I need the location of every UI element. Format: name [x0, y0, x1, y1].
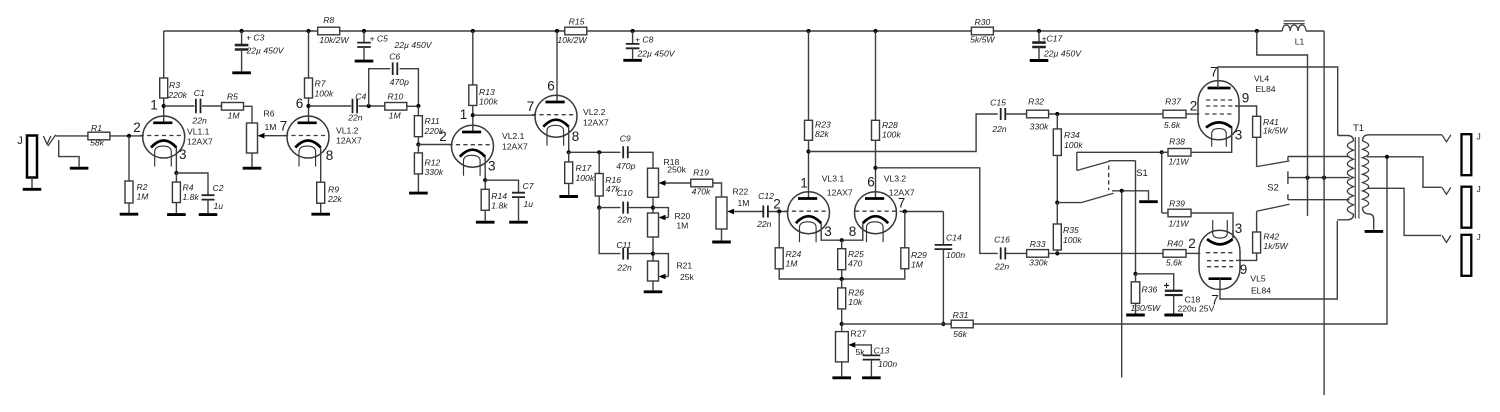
- node R35 bottom: [1055, 251, 1059, 255]
- wire B+ rail: [164, 30, 318, 32]
- wire R18 wiper-R19: [666, 182, 691, 184]
- wire S1 lower contact: [1112, 191, 1149, 201]
- svg-text:1M: 1M: [389, 110, 402, 120]
- svg-text:22n: 22n: [994, 262, 1010, 272]
- node pin6 VL1.2: [306, 104, 310, 108]
- wire R6 wiper-grid VL1.2: [264, 135, 287, 137]
- svg-text:R3: R3: [169, 80, 180, 90]
- svg-text:R5: R5: [227, 92, 238, 102]
- node R38 left: [1160, 150, 1164, 154]
- wire cathode VL2.1: [484, 157, 486, 181]
- op-amp VL3.1 triode: [788, 192, 830, 234]
- wire secondary tap1: [1367, 157, 1442, 188]
- wire R11-grid: [417, 137, 419, 145]
- resistor R17: [568, 152, 570, 162]
- svg-text:C9: C9: [620, 134, 631, 144]
- wire pin8-C9: [569, 151, 621, 153]
- svg-text:C15: C15: [990, 98, 1006, 108]
- wire C4-R10: [359, 105, 385, 107]
- resistor R9: [317, 182, 325, 203]
- wire L1 output down: [1323, 31, 1325, 395]
- jack J out2: [1462, 187, 1472, 228]
- wire jack-ground: [31, 178, 33, 189]
- switch S2 ct throw stub upper: [1287, 171, 1289, 177]
- resistor R42: [1253, 232, 1261, 253]
- wire S1 upper throw line: [1077, 151, 1162, 153]
- svg-text:R4: R4: [183, 183, 194, 193]
- wire C12-grid VL3.1: [768, 211, 787, 213]
- wire rail-plate VL2.2: [556, 31, 558, 102]
- winding T1 primary: [1347, 141, 1353, 214]
- svg-text:C6: C6: [389, 52, 400, 62]
- svg-text:R19: R19: [693, 167, 709, 177]
- svg-text:VL2.2: VL2.2: [583, 107, 606, 117]
- node rail-R7: [306, 29, 310, 33]
- svg-text:22n: 22n: [347, 113, 363, 123]
- capacitor C16: [1001, 247, 1006, 259]
- wire R21 wiper bracket: [653, 254, 668, 277]
- svg-text:S2: S2: [1267, 182, 1279, 193]
- svg-text:R6: R6: [264, 109, 275, 119]
- svg-text:R27: R27: [851, 329, 867, 339]
- wire rail-R7: [308, 31, 310, 78]
- svg-text:R39: R39: [1169, 199, 1185, 209]
- resistor R40: [1163, 250, 1186, 258]
- wire rail-R23: [808, 31, 810, 120]
- svg-text:2: 2: [773, 196, 781, 211]
- node tail: [840, 277, 844, 281]
- capacitor C6 bypass loop: [369, 69, 391, 106]
- wire R23-plate VL3.1: [808, 140, 810, 198]
- resistor R3: [160, 78, 168, 98]
- wire secondary tap2: [1367, 188, 1441, 235]
- svg-text:100k: 100k: [882, 130, 901, 140]
- resistor R4: [175, 173, 177, 182]
- svg-text:22µ 450V: 22µ 450V: [637, 48, 676, 58]
- svg-text:R21: R21: [676, 261, 692, 271]
- svg-text:250k: 250k: [667, 164, 686, 174]
- svg-text:R8: R8: [323, 15, 334, 25]
- wire cathode VL3.2: [842, 223, 863, 240]
- svg-text:R25: R25: [848, 249, 864, 259]
- svg-text:10k/2W: 10k/2W: [557, 35, 587, 45]
- op-amp VL2.1 triode: [452, 125, 494, 167]
- wire R41-S2 pivot: [1256, 137, 1258, 166]
- svg-text:VL2.1: VL2.1: [502, 131, 525, 141]
- svg-text:82k: 82k: [815, 129, 830, 139]
- resistor R2: [128, 136, 130, 181]
- ground C17: [1030, 59, 1049, 62]
- resistor R13: [469, 85, 477, 106]
- resistor R36: [1135, 274, 1137, 282]
- svg-text:R32: R32: [1028, 97, 1044, 107]
- wire C16-R33: [1006, 252, 1027, 254]
- svg-text:8: 8: [849, 224, 857, 239]
- svg-text:470p: 470p: [616, 161, 635, 171]
- svg-text:100k: 100k: [479, 97, 498, 107]
- svg-text:12AX7: 12AX7: [583, 117, 609, 127]
- svg-text:R29: R29: [911, 250, 927, 260]
- svg-text:R37: R37: [1165, 97, 1182, 107]
- svg-text:R26: R26: [848, 288, 864, 298]
- resistor R30: [971, 27, 993, 35]
- svg-text:6: 6: [867, 174, 875, 189]
- svg-text:1M: 1M: [786, 259, 799, 269]
- svg-text:C16: C16: [994, 235, 1010, 245]
- wire R40-grid VL5: [1186, 252, 1200, 254]
- resistor R8: [318, 27, 340, 35]
- svg-text:R36: R36: [1142, 285, 1158, 295]
- node rail-C3: [240, 29, 244, 33]
- svg-text:1M: 1M: [911, 260, 924, 270]
- svg-text:R38: R38: [1169, 137, 1185, 147]
- wire T1 primary bottom lead: [1337, 214, 1353, 220]
- svg-text:22k: 22k: [327, 194, 343, 204]
- node pin8 VL2.2: [567, 150, 571, 154]
- svg-text:22n: 22n: [616, 263, 632, 273]
- ground C8: [623, 59, 642, 62]
- svg-text:R12: R12: [425, 158, 441, 168]
- svg-text:+C17: +C17: [1042, 33, 1064, 43]
- svg-text:220u 25V: 220u 25V: [1178, 303, 1215, 313]
- wire R38-cathode VL4: [1191, 127, 1232, 152]
- capacitor C10: [599, 207, 620, 209]
- wire R20 wiper bracket: [653, 208, 668, 218]
- svg-text:12AX7: 12AX7: [827, 187, 853, 197]
- svg-text:C12: C12: [758, 191, 774, 201]
- svg-text:100k: 100k: [1063, 235, 1082, 245]
- svg-text:R23: R23: [815, 120, 831, 130]
- resistor R15: [565, 27, 587, 35]
- svg-text:100k: 100k: [315, 89, 334, 99]
- svg-text:R2: R2: [137, 182, 148, 192]
- ground plug: [70, 167, 89, 170]
- svg-text:1: 1: [150, 97, 158, 112]
- node rail-R23: [806, 29, 810, 33]
- ground R12: [409, 192, 428, 195]
- svg-text:C11: C11: [616, 240, 631, 250]
- svg-text:58k: 58k: [90, 138, 105, 148]
- resistor R24: [778, 212, 780, 248]
- svg-text:12AX7: 12AX7: [502, 141, 528, 151]
- svg-text:100n: 100n: [878, 359, 897, 369]
- svg-text:22n: 22n: [756, 219, 772, 229]
- ground T1 secondary: [1365, 230, 1384, 233]
- node pin3 VL2.1: [483, 178, 487, 182]
- wire cathode VL3.1: [821, 223, 842, 240]
- node feedback tap: [1385, 155, 1389, 159]
- svg-text:2: 2: [133, 120, 141, 135]
- jack J out1: [1462, 134, 1472, 175]
- svg-text:7: 7: [527, 99, 535, 114]
- wire C15-R32: [1006, 113, 1027, 115]
- svg-text:2: 2: [439, 129, 447, 144]
- wire R28-plate VL3.2: [875, 140, 877, 198]
- svg-text:1M: 1M: [265, 122, 277, 132]
- svg-text:1k/5W: 1k/5W: [1263, 125, 1288, 135]
- resistor R28: [872, 120, 880, 140]
- inductor L1: [1282, 25, 1306, 31]
- winding T1 secondary: [1363, 141, 1369, 208]
- svg-text:1M: 1M: [738, 198, 750, 208]
- wire R5-R6: [244, 106, 253, 123]
- svg-text:C2: C2: [213, 183, 224, 193]
- svg-text:T1: T1: [1353, 123, 1364, 134]
- node grid1: [127, 134, 131, 138]
- resistor R23: [805, 120, 813, 140]
- node ct-B+: [1305, 176, 1309, 180]
- svg-text:6: 6: [547, 78, 555, 93]
- svg-text:VL3.2: VL3.2: [884, 174, 907, 184]
- ground C5: [355, 60, 374, 63]
- wire rail-R28: [875, 31, 877, 120]
- svg-text:2: 2: [1190, 98, 1198, 113]
- potentiometer R22: [716, 197, 727, 229]
- svg-text:R35: R35: [1063, 225, 1079, 235]
- wire plate VL5: [1220, 221, 1337, 299]
- svg-text:8: 8: [572, 129, 580, 144]
- potentiometer R18: [648, 168, 659, 197]
- node cathodes VL3: [840, 238, 844, 242]
- wire feedback: [973, 157, 1387, 324]
- svg-text:VL3.1: VL3.1: [822, 174, 845, 184]
- wire S1 upper contact-R36 column: [1109, 160, 1136, 162]
- op-amp VL1.2 triode: [287, 116, 329, 158]
- node R20-R21: [652, 237, 654, 261]
- node rail-L1: [1255, 29, 1259, 33]
- svg-text:C4: C4: [355, 92, 366, 102]
- node R10-R11: [416, 104, 420, 108]
- svg-text:R13: R13: [479, 87, 495, 97]
- ground R21: [644, 290, 663, 293]
- wire R22 wiper-C12: [734, 211, 763, 213]
- svg-text:+ C3: + C3: [246, 32, 265, 42]
- svg-text:10k: 10k: [848, 297, 863, 307]
- svg-text:1.8k: 1.8k: [491, 201, 508, 211]
- svg-text:330k: 330k: [1029, 257, 1048, 267]
- svg-text:7: 7: [280, 119, 288, 134]
- wire R21-gnd: [652, 281, 654, 290]
- capacitor C11: [599, 208, 620, 254]
- capacitor C17: [1038, 31, 1040, 43]
- svg-text:2: 2: [1188, 236, 1196, 251]
- svg-text:22µ 450V: 22µ 450V: [246, 45, 285, 55]
- svg-text:330k: 330k: [425, 167, 444, 177]
- wire R19-R22: [713, 183, 722, 197]
- ground R36: [1126, 314, 1145, 317]
- ground R2: [120, 213, 139, 216]
- svg-text:3: 3: [1235, 127, 1243, 142]
- svg-text:R22: R22: [733, 187, 749, 197]
- node R16 bottom: [597, 206, 601, 210]
- svg-text:7: 7: [1210, 64, 1218, 79]
- ground R9: [311, 213, 330, 216]
- wire input-R1: [56, 135, 88, 137]
- svg-text:R7: R7: [315, 79, 327, 89]
- svg-text:C13: C13: [874, 346, 890, 356]
- node grid VL2.1: [416, 142, 420, 146]
- resistor R14: [484, 180, 486, 189]
- wire S1-cathode node: [1135, 161, 1137, 274]
- switch S2 lower arm: [1257, 204, 1290, 211]
- svg-text:R33: R33: [1030, 239, 1046, 249]
- node pin2 VL3.1: [777, 209, 781, 213]
- ground S1: [1139, 200, 1158, 203]
- ground C3: [232, 71, 251, 74]
- wire UL tap lower: [1288, 199, 1350, 201]
- svg-text:R28: R28: [882, 120, 898, 130]
- svg-text:C14: C14: [946, 233, 962, 243]
- svg-text:56k: 56k: [953, 329, 968, 339]
- wire cathode lead VL4: [1231, 128, 1233, 141]
- node S1 pole: [1055, 201, 1059, 205]
- svg-text:5.6k: 5.6k: [1164, 120, 1181, 130]
- wire plate1-C15: [809, 114, 998, 152]
- node rail-C8: [631, 29, 635, 33]
- svg-text:3: 3: [1235, 221, 1243, 236]
- wire T1 primary top lead: [1338, 136, 1354, 142]
- transistor VL4 pentode: [1198, 81, 1239, 140]
- node C14-R31: [941, 322, 945, 326]
- svg-text:470p: 470p: [390, 77, 409, 87]
- resistor R35: [1056, 203, 1058, 224]
- wire R1-grid VL1.1: [110, 135, 143, 137]
- capacitor C3: [241, 31, 243, 45]
- ground R14: [476, 221, 495, 224]
- capacitor C12: [763, 206, 768, 218]
- resistor R10: [385, 103, 407, 111]
- svg-text:470k: 470k: [692, 186, 711, 196]
- wire S1 down (off page): [1121, 191, 1123, 378]
- wire R6-gnd: [251, 153, 253, 167]
- node rail-VL2.2: [555, 29, 559, 33]
- svg-text:1M: 1M: [676, 221, 688, 231]
- op-amp VL2.2 triode: [535, 95, 577, 137]
- capacitor C8: [632, 31, 634, 44]
- switch S1 gang link: [1108, 166, 1110, 191]
- wire S1 lower pole: [1057, 202, 1081, 204]
- svg-text:R9: R9: [328, 185, 339, 195]
- plug contact out2: [1442, 187, 1451, 194]
- ground R6: [243, 167, 262, 170]
- plug contact out1: [1442, 135, 1451, 142]
- svg-text:22n: 22n: [191, 115, 207, 125]
- svg-text:+ C8: + C8: [635, 34, 654, 44]
- resistor R34: [1056, 114, 1058, 129]
- svg-text:470: 470: [848, 259, 863, 269]
- capacitor C15: [1001, 108, 1006, 120]
- capacitor C18: [1136, 274, 1174, 291]
- svg-text:12AX7: 12AX7: [336, 136, 362, 146]
- svg-text:220k: 220k: [167, 90, 187, 100]
- svg-text:9: 9: [1242, 90, 1250, 105]
- node rail-C17: [1037, 29, 1041, 33]
- wire R42-S2 pivot: [1256, 211, 1258, 232]
- svg-text:22µ 450V: 22µ 450V: [1043, 48, 1082, 58]
- wire grid wire VL2.1: [418, 144, 451, 146]
- resistor R33: [1027, 250, 1049, 258]
- svg-text:R40: R40: [1167, 239, 1183, 249]
- wire plug-break-ground: [59, 140, 79, 167]
- capacitor C5: [363, 31, 365, 43]
- wire cathode VL1.1: [175, 148, 177, 174]
- wire B+ bypass to ct: [1257, 31, 1308, 216]
- node R16 top: [597, 150, 601, 154]
- node rail-R13: [471, 29, 475, 33]
- resistor R41: [1253, 116, 1261, 137]
- resistor R16: [598, 152, 600, 173]
- svg-text:1M: 1M: [228, 111, 241, 121]
- ground C7: [509, 221, 528, 224]
- switch S1 lower arm: [1081, 193, 1113, 202]
- svg-text:VL1.1: VL1.1: [187, 127, 210, 137]
- svg-text:EL84: EL84: [1251, 285, 1271, 295]
- op-amp VL1.1 triode: [143, 116, 185, 158]
- ground C2: [199, 213, 218, 216]
- svg-text:R15: R15: [569, 17, 585, 27]
- wire C9-R18: [628, 152, 653, 168]
- potentiometer R21: [648, 261, 659, 281]
- svg-text:22n: 22n: [991, 124, 1007, 134]
- svg-text:R10: R10: [388, 91, 404, 101]
- wire cathode VL1.2: [320, 148, 322, 183]
- jack J out3: [1462, 235, 1472, 276]
- plug contact input: [43, 136, 50, 144]
- svg-text:C10: C10: [617, 188, 633, 198]
- svg-text:330k: 330k: [1030, 122, 1049, 132]
- wire rail-R13: [472, 31, 474, 85]
- node plate VL3.1: [806, 149, 810, 153]
- svg-text:3: 3: [824, 224, 832, 239]
- svg-text:EL84: EL84: [1255, 84, 1275, 94]
- capacitor C14: [942, 212, 944, 245]
- potentiometer R27: [841, 324, 843, 332]
- wire cathode lead VL5: [1232, 230, 1234, 238]
- resistor R25: [841, 240, 843, 249]
- svg-text:J: J: [1477, 132, 1481, 142]
- svg-text:R30: R30: [975, 17, 991, 27]
- capacitor C2: [176, 173, 208, 195]
- svg-text:10k/2W: 10k/2W: [319, 35, 349, 45]
- jack J input: [27, 136, 37, 178]
- wire R38-R39 tie: [1161, 152, 1163, 213]
- wire T1 secondary bottom lead: [1363, 208, 1374, 230]
- capacitor C9: [623, 146, 628, 158]
- wire R33-R40: [1048, 252, 1163, 254]
- capacitor C4: [309, 105, 352, 107]
- node pin1 VL2.1: [471, 113, 475, 117]
- svg-text:J: J: [1477, 232, 1481, 242]
- svg-text:R17: R17: [576, 163, 593, 173]
- node C4-R10: [367, 104, 371, 108]
- wire screen VL4-R41: [1235, 106, 1257, 116]
- wire R3-plate: [163, 98, 165, 123]
- svg-text:1.8k: 1.8k: [183, 192, 200, 202]
- ground R4: [167, 213, 186, 216]
- ground R22: [712, 241, 731, 244]
- svg-text:1M: 1M: [137, 192, 150, 202]
- ground R17: [559, 195, 578, 198]
- node R36 top: [1133, 272, 1137, 276]
- svg-text:VL1.2: VL1.2: [336, 126, 359, 136]
- op-amp VL3.2 triode: [855, 192, 897, 234]
- resistor R29: [904, 212, 906, 248]
- node plate VL3.2: [873, 166, 877, 170]
- wire UL tap upper: [1288, 156, 1350, 158]
- wire R7-plate VL1.2: [308, 98, 310, 123]
- node R18-R20: [652, 197, 654, 213]
- svg-text:1: 1: [800, 175, 808, 190]
